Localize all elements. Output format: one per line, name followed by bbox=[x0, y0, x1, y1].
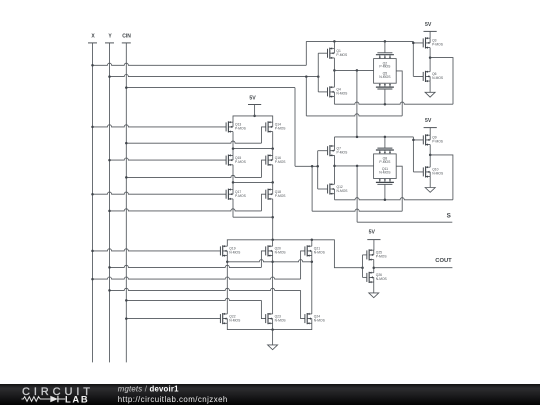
transistor Q4 bbox=[328, 86, 349, 98]
wire seg2 drain to TG2 bbox=[335, 165, 374, 168]
wire Q15 drain down bbox=[232, 165, 234, 183]
wire gate rail Q25 Q26 bbox=[362, 255, 364, 278]
transistor Q14 bbox=[266, 121, 287, 133]
transistor Q15 bbox=[226, 154, 247, 166]
wire drain node to TG1 bbox=[334, 69, 373, 72]
svg-text:S: S bbox=[447, 213, 451, 220]
transistor Q6 bbox=[423, 71, 444, 83]
wire h8 X to Q17 gate bbox=[91, 192, 226, 195]
wire Q16 drain down bbox=[272, 165, 274, 183]
wire Q12 gate lead bbox=[318, 188, 328, 190]
wire Q26 gate lead bbox=[363, 276, 368, 278]
wire rail2 bbox=[232, 147, 274, 150]
wire Q1 gate lead bbox=[318, 52, 327, 54]
wire TG2 right down bbox=[396, 166, 402, 211]
wire branch node down bbox=[356, 70, 358, 136]
svg-text:N-MOS: N-MOS bbox=[275, 318, 287, 322]
svg-text:5V: 5V bbox=[425, 22, 432, 28]
svg-text:N-MOS: N-MOS bbox=[337, 189, 349, 193]
transistor Q9 bbox=[423, 134, 444, 146]
wire h9 Y to Q18 gate bbox=[108, 194, 266, 212]
svg-text:P-MOS: P-MOS bbox=[275, 160, 287, 164]
wire rail1 bbox=[233, 116, 273, 122]
wire Q14 drain down bbox=[272, 132, 274, 149]
svg-text:P-MOS: P-MOS bbox=[379, 65, 391, 69]
svg-text:LAB: LAB bbox=[65, 393, 89, 404]
svg-text:N-MOS: N-MOS bbox=[379, 170, 391, 174]
wire Q1-Q4 drain link bbox=[333, 58, 336, 87]
wire TG1 right to lineB bbox=[396, 71, 402, 116]
svg-text:P-MOS: P-MOS bbox=[275, 127, 287, 131]
svg-text:N-MOS: N-MOS bbox=[376, 277, 388, 281]
transistor Q3 bbox=[423, 37, 444, 49]
svg-text:5V: 5V bbox=[249, 96, 256, 102]
svg-text:P-MOS: P-MOS bbox=[235, 127, 247, 131]
wire TG1 top gate stem bbox=[384, 41, 386, 52]
svg-text:5V: 5V bbox=[369, 230, 376, 236]
wire Q3 gate tap bbox=[412, 41, 423, 76]
wire h3 CIN branch down bbox=[125, 86, 295, 166]
svg-text:P-MOS: P-MOS bbox=[336, 53, 348, 57]
wire h7 CIN to Q16 gate bbox=[125, 160, 266, 179]
svg-text:N-MOS: N-MOS bbox=[229, 251, 241, 255]
wire Q17 source up bbox=[232, 182, 234, 189]
svg-text:N-MOS: N-MOS bbox=[314, 251, 326, 255]
wire h12 X to Q21 gate bbox=[91, 251, 305, 280]
wire h15 CIN to Q22 gate bbox=[125, 317, 221, 320]
svg-text:5V: 5V bbox=[425, 118, 432, 124]
wire gate rail Q1 Q4 bbox=[317, 53, 319, 92]
transistor Q19 bbox=[220, 245, 241, 257]
wire Q7 source riser bbox=[334, 137, 336, 146]
wire Q21 drain up bbox=[311, 240, 313, 246]
transistor Q20 bbox=[266, 245, 287, 257]
wire Q1 drain riser bbox=[333, 41, 335, 48]
svg-text:N-MOS: N-MOS bbox=[432, 172, 444, 176]
wire rail4 bbox=[233, 216, 274, 219]
logo diode bbox=[50, 396, 65, 403]
wire Q4 gate lead bbox=[318, 91, 327, 93]
transistor Q21 bbox=[305, 245, 326, 257]
wire Q12 source L1 bbox=[335, 154, 453, 201]
wire S output bbox=[357, 221, 452, 223]
svg-text:N-MOS: N-MOS bbox=[314, 318, 326, 322]
wire h4 X to Q13 gate bbox=[91, 125, 226, 128]
power 5V supply P-block bbox=[248, 96, 261, 118]
wire mid rail bbox=[227, 260, 311, 262]
wire Q13 drain down bbox=[232, 132, 234, 149]
svg-text:N-MOS: N-MOS bbox=[379, 75, 391, 79]
wire TG1 bottom gate stem bbox=[384, 89, 386, 104]
transistor Q22 bbox=[220, 313, 241, 325]
wire Q7-Q12 drain link bbox=[333, 155, 336, 184]
wire CIN to stage2 gates bbox=[295, 165, 319, 168]
wire Q18 source up bbox=[272, 182, 274, 189]
wire h5 CIN to Q14 gate bbox=[125, 127, 266, 144]
wire Q25 gate lead bbox=[363, 254, 368, 256]
wire h10 X to Q19 gate bbox=[91, 249, 220, 252]
wire P-block output stem bbox=[272, 217, 274, 240]
svg-text:P-MOS: P-MOS bbox=[235, 160, 247, 164]
transistor Q17 bbox=[226, 188, 247, 200]
transistor Q18 bbox=[266, 188, 287, 200]
transmission gate Q2 Q5 bbox=[374, 53, 397, 89]
svg-text:P-MOS: P-MOS bbox=[432, 140, 444, 144]
transistor Q16 bbox=[266, 154, 287, 166]
wire h11 Y to Q20 gate bbox=[108, 251, 266, 269]
svg-text:X: X bbox=[91, 33, 95, 39]
ground Q6 bbox=[425, 81, 435, 97]
svg-text:N-MOS: N-MOS bbox=[432, 76, 444, 80]
wire Q4 source lineA bbox=[334, 56, 453, 105]
wire Q25-Q26 drain link bbox=[373, 260, 376, 273]
wire Q21 source chain bbox=[311, 256, 314, 314]
svg-text:N-MOS: N-MOS bbox=[336, 92, 348, 96]
ground Q10 bbox=[425, 177, 435, 193]
svg-text:http://circuitlab.com/cnjzxeh: http://circuitlab.com/cnjzxeh bbox=[118, 395, 228, 404]
input terminal Y bbox=[105, 33, 114, 362]
transistor Q12 bbox=[328, 183, 349, 195]
wire Q19 source chain bbox=[226, 256, 229, 314]
wire Q7 gate lead bbox=[318, 150, 328, 152]
logo resistor zigzag bbox=[22, 397, 51, 402]
footer bar bbox=[0, 384, 540, 405]
wire Q15 source up bbox=[232, 149, 234, 156]
wire N-block drain rail bbox=[227, 239, 363, 269]
wire t1 stage1 top rail bbox=[306, 40, 413, 43]
wire COUT output bbox=[374, 267, 453, 269]
transistor Q24 bbox=[305, 313, 326, 325]
ground N-block bbox=[268, 330, 278, 350]
wire Q9-Q10 drain link bbox=[429, 145, 431, 168]
wire h6 Y to Q15 gate bbox=[108, 158, 226, 161]
wire rail3 bbox=[232, 181, 274, 184]
svg-text:mgtets / devoir1: mgtets / devoir1 bbox=[118, 385, 179, 394]
transistor Q26 bbox=[367, 272, 388, 284]
transistor Q1 bbox=[328, 47, 349, 59]
svg-text:P-MOS: P-MOS bbox=[235, 194, 247, 198]
svg-text:COUT: COUT bbox=[435, 258, 452, 264]
transistor Q13 bbox=[226, 121, 247, 133]
transistor Q10 bbox=[423, 166, 444, 178]
wire bottom rail bbox=[227, 323, 311, 331]
wire Q16 source up bbox=[272, 149, 274, 156]
svg-text:N-MOS: N-MOS bbox=[229, 318, 241, 322]
transistor Q7 bbox=[328, 145, 349, 157]
ground Q26 bbox=[369, 282, 379, 298]
input terminal CIN bbox=[122, 33, 131, 362]
svg-text:N-MOS: N-MOS bbox=[275, 251, 287, 255]
svg-text:P-MOS: P-MOS bbox=[379, 160, 391, 164]
power 5V supply Q9 bbox=[424, 118, 437, 135]
power 5V supply Q25 bbox=[367, 230, 380, 251]
svg-text:P-MOS: P-MOS bbox=[432, 43, 444, 47]
wire L2 CIN branch bbox=[312, 166, 402, 211]
svg-text:P-MOS: P-MOS bbox=[275, 194, 287, 198]
wire h13 Y to Q24 gate bbox=[108, 288, 305, 318]
transistor Q23 bbox=[266, 313, 287, 325]
wire Q3-Q6 drain link bbox=[429, 48, 431, 72]
wire gate rail Q7 Q12 bbox=[317, 151, 319, 189]
transmission gate Q8 Q11 bbox=[374, 148, 397, 184]
wire h2 Y to Q1 Q4 gates bbox=[108, 75, 319, 78]
wire TG2 bottom gate stem bbox=[384, 184, 386, 200]
wire stage2 top rail bbox=[335, 136, 414, 139]
svg-text:Y: Y bbox=[108, 33, 112, 39]
wire h1 X to stage1 bbox=[91, 41, 306, 66]
svg-text:CIN: CIN bbox=[122, 33, 131, 39]
wire h14 CIN to Q23 gate bbox=[125, 298, 266, 318]
input terminal X bbox=[88, 33, 97, 362]
svg-text:P-MOS: P-MOS bbox=[337, 151, 349, 155]
transistor Q25 bbox=[367, 249, 388, 261]
svg-text:P-MOS: P-MOS bbox=[376, 255, 388, 259]
wire Q20 source chain bbox=[271, 256, 274, 314]
power 5V supply Q3 bbox=[424, 22, 437, 38]
wire S branch bbox=[356, 166, 358, 222]
wire Q17 drain down bbox=[232, 199, 234, 217]
wire TG2 top gate stem bbox=[384, 137, 386, 148]
wire Q18 drain down bbox=[272, 199, 274, 217]
wire Q9 gate tap bbox=[412, 137, 423, 172]
wire lineB Y branch bbox=[306, 77, 402, 116]
wire Q20 drain up bbox=[272, 240, 274, 246]
